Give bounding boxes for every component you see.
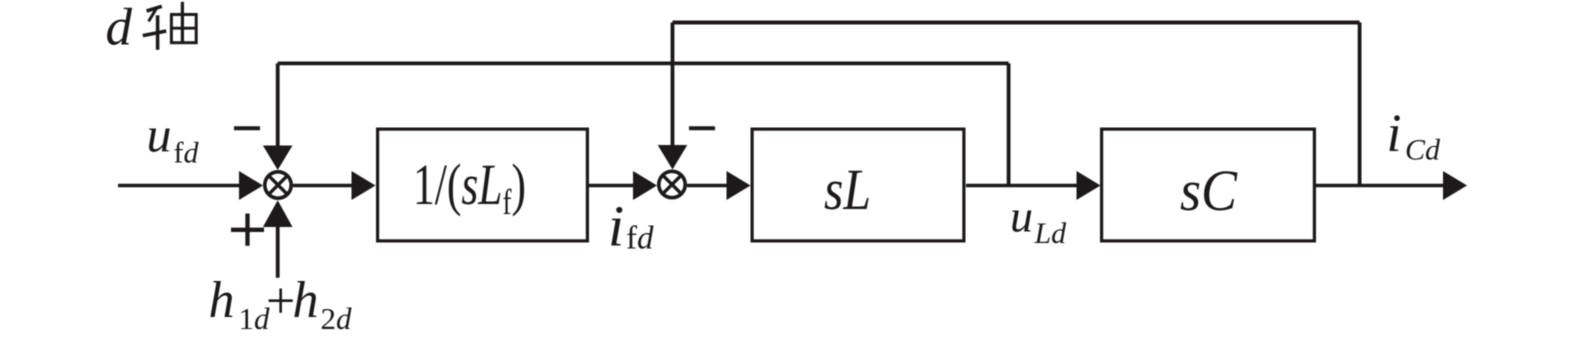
minus sign at S1 top input: [234, 126, 260, 130]
svg-text:u: u: [1010, 191, 1033, 242]
block G3 transfer function sC: [1102, 129, 1315, 241]
wire feedback-1 drop into S2 top: [671, 23, 675, 148]
svg-text:+: +: [266, 273, 295, 330]
arrowhead into summing junction S1 (from left): [239, 171, 263, 200]
block G2 transfer function sL: [752, 129, 964, 241]
svg-text:h: h: [293, 272, 319, 329]
svg-text:Cd: Cd: [1405, 134, 1441, 167]
wire feedback-2 drop into S1 top: [276, 63, 280, 147]
arrowhead into block G2: [727, 171, 751, 200]
wire S1 to block G1: [293, 184, 353, 188]
plus sign at S1 bottom input: [231, 214, 264, 246]
label d-axis heading "d 轴": [106, 0, 198, 56]
svg-text:i: i: [608, 194, 624, 259]
block G1 transfer function 1/(sLf): [378, 129, 588, 241]
wire block G2 to block G3: [966, 184, 1078, 188]
label u_Ld (voltage node): [1010, 191, 1067, 251]
arrowhead into S1 from bottom: [263, 200, 293, 227]
minus sign at S2 top input: [689, 126, 715, 130]
hand-drawn CJK glyph 轴 (axis): [143, 2, 198, 50]
svg-text:sL: sL: [824, 157, 871, 222]
wire block G3 to output: [1316, 184, 1444, 188]
svg-text:u: u: [147, 107, 172, 163]
arrowhead into block G1: [352, 171, 376, 200]
arrowhead into summing junction S2 (from left): [633, 171, 657, 200]
svg-text:fd: fd: [174, 137, 200, 170]
svg-text:d: d: [106, 0, 133, 56]
wire S2 to block G2: [687, 184, 728, 188]
svg-text:2d: 2d: [321, 301, 353, 336]
summing junction S1 (circle with X): [265, 172, 291, 198]
wire block G1 to summing junction S2: [588, 184, 634, 188]
arrowhead into S2 from top: [658, 145, 688, 170]
svg-text:sC: sC: [1180, 158, 1238, 223]
wire bottom input stem into S1: [276, 225, 280, 278]
label h_1d + h_2d (bottom input): [209, 272, 353, 336]
wire input u_fd to summing junction S1: [118, 184, 241, 188]
arrowhead into block G3: [1077, 171, 1101, 200]
wire feedback-2 horizontal run: [278, 62, 1009, 66]
label u_fd (input signal): [147, 107, 200, 170]
node uLd tap (vertical riser to feedback-2): [1007, 63, 1011, 185]
label i_fd (current after G1): [608, 194, 654, 259]
svg-text:Ld: Ld: [1034, 217, 1068, 250]
svg-text:fd: fd: [626, 221, 654, 257]
svg-text:h: h: [209, 272, 235, 329]
arrowhead into S1 from top: [263, 146, 293, 171]
node iCd tap (vertical riser to feedback-1): [1358, 23, 1362, 186]
summing junction S2 (circle with X): [659, 171, 685, 197]
label i_Cd (output current): [1387, 103, 1442, 167]
wire feedback-1 horizontal run: [673, 21, 1360, 25]
svg-text:i: i: [1387, 103, 1402, 163]
arrowhead output i_Cd: [1443, 171, 1467, 200]
